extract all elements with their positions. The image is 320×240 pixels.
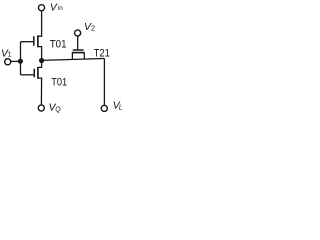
transistor T01 (bottom) channel bbox=[37, 67, 39, 79]
junction node output bbox=[39, 58, 44, 63]
svg-text:T01: T01 bbox=[50, 38, 67, 50]
junction node on gate bus bbox=[18, 59, 23, 64]
wire T01 top source to node bbox=[38, 47, 42, 61]
wire T21 left leg bbox=[71, 53, 73, 60]
wire Vin to T01 drain bbox=[38, 11, 42, 36]
terminal VL bbox=[101, 105, 107, 111]
svg-text:in: in bbox=[58, 5, 63, 12]
transistor T01 (bottom) gate bar bbox=[33, 69, 35, 78]
wire T21 to VL bbox=[103, 59, 105, 105]
terminal V1 bbox=[5, 59, 11, 65]
wire V1 to gate bus bbox=[11, 60, 20, 62]
transistor T21 gate bar bbox=[73, 49, 84, 51]
transistor T01 (top) channel bbox=[37, 35, 39, 47]
svg-text:2: 2 bbox=[91, 24, 95, 33]
transistor T21 channel bbox=[72, 52, 85, 54]
terminal VQ bbox=[38, 105, 44, 111]
wire output node to VL corner bbox=[42, 59, 105, 61]
svg-text:Q: Q bbox=[55, 107, 61, 114]
svg-text:V: V bbox=[50, 3, 58, 14]
wire V2 gate lead bbox=[77, 36, 79, 49]
svg-text:L: L bbox=[119, 103, 123, 112]
terminal V2 bbox=[75, 30, 81, 36]
wire T01 bottom source to VQ bbox=[38, 78, 42, 105]
wire T21 right leg bbox=[83, 53, 85, 60]
transistor T01 (top) gate bar bbox=[33, 36, 35, 45]
wire gate lead T01 bottom bbox=[21, 74, 34, 76]
wire gate lead T01 top bbox=[21, 41, 34, 43]
svg-text:T01: T01 bbox=[51, 76, 67, 88]
wire gate bus from V1 bbox=[20, 42, 22, 75]
svg-text:T21: T21 bbox=[94, 47, 110, 59]
terminal Vin bbox=[38, 5, 44, 11]
svg-text:1: 1 bbox=[8, 50, 12, 59]
wire node to T01 bottom drain bbox=[38, 61, 42, 68]
